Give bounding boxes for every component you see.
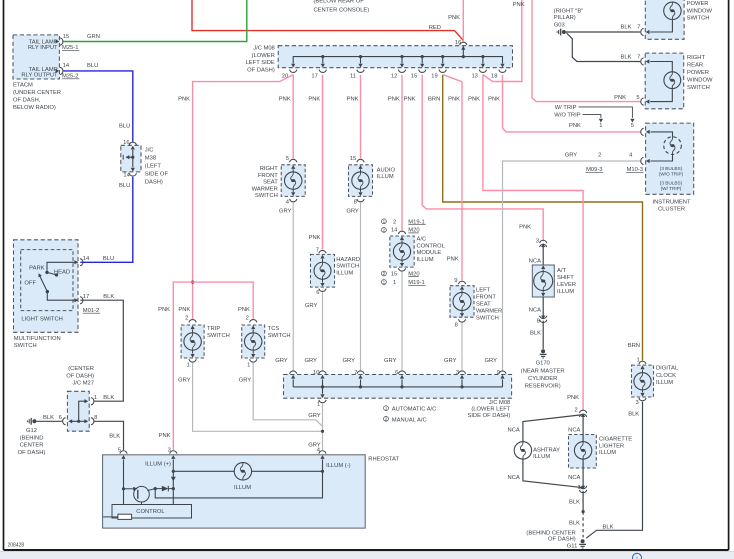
digital clock pin 3 labels	[628, 400, 639, 417]
svg-text:J/C M08: J/C M08	[253, 46, 275, 52]
svg-text:WINDOW: WINDOW	[687, 77, 713, 83]
svg-text:RLY INPUT: RLY INPUT	[28, 45, 58, 51]
svg-text:1: 1	[393, 280, 396, 286]
wire PNK pin 19 branch to left front seat warmer switch	[443, 75, 462, 281]
transistor inside rheostat control	[124, 486, 156, 504]
J/C M08 lower pin 1 exit	[317, 387, 326, 408]
ground G11	[579, 539, 586, 548]
svg-text:PNK: PNK	[447, 256, 459, 262]
svg-text:3: 3	[635, 400, 638, 406]
svg-text:16: 16	[123, 140, 129, 146]
switch TCS SWITCH	[242, 316, 291, 369]
svg-text:RIGHT: RIGHT	[260, 166, 278, 172]
svg-text:TCS: TCS	[268, 326, 280, 332]
svg-text:CONTROL: CONTROL	[136, 509, 165, 515]
resistor on control box	[103, 514, 131, 519]
svg-text:NCA: NCA	[529, 258, 541, 264]
svg-text:WINDOW: WINDOW	[687, 8, 713, 14]
svg-text:CYLINDER: CYLINDER	[528, 376, 557, 382]
svg-text:2: 2	[598, 153, 601, 159]
label (CENTER OF DASH) J/C M27	[66, 366, 94, 387]
svg-text:(LOWER: (LOWER	[252, 53, 275, 59]
J/C M08 lower pin numbers 10 7 6 3 9	[313, 370, 500, 376]
svg-text:FRONT: FRONT	[476, 294, 496, 300]
wire BLK pin 1 to junction	[569, 491, 585, 513]
svg-text:GRY: GRY	[275, 358, 288, 364]
svg-text:ILLUM: ILLUM	[377, 174, 394, 180]
light switch contact wiring	[45, 262, 78, 276]
svg-text:(RIGHT "B": (RIGHT "B"	[554, 9, 583, 15]
svg-text:G03: G03	[554, 23, 565, 29]
switch RIGHT REAR POWER WINDOW SWITCH	[641, 53, 713, 109]
svg-text:1: 1	[599, 123, 602, 129]
svg-text:BLK: BLK	[621, 24, 632, 30]
svg-text:OF DASH,: OF DASH,	[13, 97, 41, 103]
svg-text:PNK: PNK	[567, 395, 579, 401]
svg-text:REAR: REAR	[687, 62, 703, 68]
svg-text:BLK: BLK	[43, 415, 54, 421]
svg-text:15: 15	[350, 156, 356, 162]
label LIGHT SWITCH	[21, 316, 62, 322]
svg-text:NCA: NCA	[508, 428, 520, 434]
svg-text:6: 6	[59, 415, 62, 421]
J/C M08 lower top connectors	[290, 371, 507, 374]
wire PNK branch to TCS switch	[193, 282, 254, 319]
wire BLU from J/C M38 pin 14 to light switch pin 14	[80, 177, 133, 262]
ground G170 (NEAR MASTER CYLINDER RESERVOIR)	[521, 349, 565, 389]
svg-text:SIDE OF: SIDE OF	[145, 171, 169, 177]
J/C M27 pin 8	[91, 415, 97, 425]
svg-text:LEVER: LEVER	[557, 282, 576, 288]
label PNK cigarette lighter feed	[567, 395, 579, 401]
wire PNK pin 15 to a/t shift lever illum	[422, 75, 543, 241]
wire PNK pin 13 to cigarette lighter illum	[483, 75, 583, 411]
label ETACM (UNDER CENTER OF DASH, BELOW RADIO)	[13, 83, 61, 111]
svg-text:RHEOSTAT: RHEOSTAT	[368, 457, 399, 463]
svg-text:PNK: PNK	[488, 97, 500, 103]
label BLK 7 lower	[621, 54, 641, 60]
switch RIGHT FRONT SEAT WARMER SWITCH	[252, 156, 306, 206]
svg-text:GRY: GRY	[279, 209, 292, 215]
svg-text:PNK: PNK	[347, 97, 359, 103]
wire GRY left front seat warmer to lower J/C M08	[461, 323, 463, 371]
svg-text:5: 5	[286, 156, 289, 162]
svg-text:LIGHT SWITCH: LIGHT SWITCH	[21, 316, 62, 322]
svg-text:16: 16	[455, 40, 461, 46]
svg-text:BLK: BLK	[103, 294, 114, 300]
svg-text:15: 15	[63, 34, 69, 40]
svg-text:BLK: BLK	[603, 525, 614, 531]
svg-text:(LOWER LEFT: (LOWER LEFT	[471, 406, 510, 412]
svg-text:SWITCH: SWITCH	[476, 315, 499, 321]
J/C M08 upper pin numbers 20 17 11 12 15 19 13 18	[282, 73, 498, 79]
svg-text:OF DASH): OF DASH)	[18, 450, 46, 456]
wire PNK from top (below rear of center console) down to J/C M08 pin 16	[462, 0, 464, 41]
junction box J/C M27	[67, 391, 89, 431]
svg-text:GRY: GRY	[305, 303, 318, 309]
svg-text:7: 7	[354, 370, 357, 376]
wire PNK pin 12 to a/c control module illum	[401, 75, 403, 231]
wire GRN from ETACM tail lamp rly input to top edge	[64, 0, 247, 42]
svg-text:6: 6	[395, 370, 398, 376]
label (RIGHT B PILLAR) G03	[554, 9, 583, 29]
component box RHEOSTAT	[103, 455, 400, 528]
svg-text:G170: G170	[536, 361, 550, 367]
svg-text:(LEFT: (LEFT	[145, 163, 162, 169]
rheostat pin 4	[317, 447, 326, 459]
svg-text:7: 7	[637, 24, 640, 30]
label BLK rheostat pin5 feed	[109, 433, 120, 439]
svg-text:DASH): DASH)	[145, 179, 163, 185]
svg-text:PNK: PNK	[158, 307, 170, 313]
connector refs above a/c module	[382, 219, 426, 234]
svg-text:POWER: POWER	[687, 70, 709, 76]
svg-text:17: 17	[83, 294, 89, 300]
svg-text:12: 12	[391, 73, 397, 79]
svg-text:PNK: PNK	[309, 235, 321, 241]
svg-text:7: 7	[316, 247, 319, 253]
svg-text:SWITCH: SWITCH	[336, 264, 359, 270]
svg-text:ILLUM: ILLUM	[533, 454, 550, 460]
wire PNK pin 20 branch to trip switch column	[191, 75, 293, 319]
pin 15 TAIL LAMP RLY INPUT	[28, 34, 80, 51]
svg-text:A/C: A/C	[417, 237, 427, 243]
svg-text:PNK: PNK	[178, 97, 190, 103]
svg-text:PNK: PNK	[388, 97, 400, 103]
svg-text:NCA: NCA	[508, 475, 520, 481]
label PARK / HEAD / OFF	[24, 266, 70, 287]
svg-text:CENTER CONSOLE): CENTER CONSOLE)	[314, 7, 370, 13]
svg-text:BLK: BLK	[109, 433, 120, 439]
svg-text:PNK: PNK	[279, 97, 291, 103]
box CIGARETTE LIGHTER ILLUM highlight	[569, 435, 597, 469]
svg-text:LEFT SIDE: LEFT SIDE	[246, 60, 275, 66]
svg-text:GRY: GRY	[384, 358, 397, 364]
label J/C M08 (LOWER LEFT SIDE OF DASH) lower	[467, 400, 510, 419]
label BRN digital clock	[628, 343, 640, 349]
wire GRY tcs switch join	[253, 363, 322, 427]
svg-text:A/T: A/T	[557, 268, 566, 274]
wire PNK pin 18 to instrument cluster	[503, 75, 641, 132]
label MULTIFUNCTION SWITCH	[14, 336, 61, 349]
svg-text:BLK: BLK	[530, 331, 541, 337]
svg-text:5: 5	[631, 123, 634, 129]
switch LEFT FRONT SEAT WARMER SWITCH	[450, 278, 502, 328]
switch TRIP SWITCH	[181, 316, 230, 369]
svg-text:PNK: PNK	[519, 225, 531, 231]
svg-text:BRN: BRN	[428, 97, 440, 103]
svg-text:POWER: POWER	[687, 1, 709, 7]
wire BRN pin 19 to digital clock illum	[443, 75, 643, 361]
svg-text:G11: G11	[567, 544, 578, 550]
wire GRY instrument cluster to lower J/C M08 pin 9	[503, 161, 641, 370]
svg-text:SHIFT: SHIFT	[557, 275, 574, 281]
label GRY row above lower J/C M08	[275, 358, 497, 364]
rheostat pin 5 internal drop	[122, 459, 125, 504]
svg-text:GRY: GRY	[308, 413, 321, 419]
rheostat illum(+) node wiring	[171, 459, 323, 504]
cigarette lighter pin 1 connector	[577, 485, 586, 493]
note (BELOW REAR OF CENTER CONSOLE)	[314, 0, 370, 13]
label J/C M08 (LOWER LEFT SIDE OF DASH) upper	[246, 46, 275, 74]
svg-text:OF DASH): OF DASH)	[247, 67, 275, 73]
label BLU above J/C M38	[119, 124, 130, 130]
svg-text:(BEHIND CENTER: (BEHIND CENTER	[526, 530, 575, 536]
wire GRY audio illum to lower J/C M08	[346, 202, 360, 370]
svg-text:ILLUM: ILLUM	[599, 450, 616, 456]
wire BLK digital clock to G11	[586, 402, 642, 539]
svg-text:PNK: PNK	[448, 97, 460, 103]
label BLK pin1 wire	[103, 395, 114, 401]
svg-text:(W/ TRIP): (W/ TRIP)	[661, 186, 682, 191]
lamp A/T SHIFT LEVER ILLUM	[529, 239, 576, 298]
svg-text:GRY: GRY	[305, 358, 318, 364]
J/C M27 internal bus	[68, 399, 88, 423]
svg-text:GRY: GRY	[343, 358, 356, 364]
label PNK a/t shift feed	[519, 225, 531, 231]
svg-text:GRN: GRN	[87, 34, 100, 40]
component box INSTRUMENT CLUSTER	[641, 123, 694, 194]
svg-text:PNK: PNK	[238, 307, 250, 313]
junction box J/C M08 lower	[284, 375, 512, 399]
lamp HAZARD SWITCH ILLUM	[311, 247, 361, 296]
svg-text:WARMER: WARMER	[252, 186, 278, 192]
svg-text:BLK: BLK	[621, 54, 632, 60]
svg-text:CLUSTER: CLUSTER	[658, 207, 685, 213]
svg-text:PARK: PARK	[29, 266, 44, 272]
svg-text:(BELOW REAR OF: (BELOW REAR OF	[314, 0, 365, 5]
label GRY 2 4 cluster	[565, 153, 633, 159]
svg-text:18: 18	[491, 73, 497, 79]
svg-text:(UNDER CENTER: (UNDER CENTER	[13, 90, 61, 96]
svg-text:1: 1	[247, 362, 250, 368]
svg-text:RIGHT: RIGHT	[687, 55, 705, 61]
svg-text:ASHTRAY: ASHTRAY	[533, 448, 560, 454]
svg-text:BLU: BLU	[119, 124, 130, 130]
svg-text:1: 1	[317, 402, 320, 408]
wire BLK G03 to left rear power window switch pin 7	[566, 31, 641, 33]
svg-text:14: 14	[123, 173, 130, 179]
svg-text:2: 2	[246, 316, 249, 322]
svg-text:HAZARD: HAZARD	[336, 257, 360, 263]
lamp ILLUM inside rheostat	[234, 463, 252, 491]
svg-text:TRIP: TRIP	[207, 326, 220, 332]
svg-text:10: 10	[313, 370, 319, 376]
svg-text:i: i	[636, 555, 637, 559]
svg-text:2: 2	[393, 219, 396, 225]
rheostat pin 5	[118, 447, 127, 459]
svg-text:BLK: BLK	[628, 411, 639, 417]
wire NCA split to ashtray and cigarette lighter	[523, 415, 583, 488]
inner box LIGHT SWITCH	[21, 250, 73, 311]
wire BLK dashed existing splice to G11	[569, 512, 583, 538]
diagram number 208428	[8, 543, 25, 549]
junction box J/C M08 upper	[278, 46, 512, 68]
component box MULTIFUNCTION SWITCH	[14, 240, 79, 332]
label BLK near g11 join	[603, 525, 614, 531]
wire PNK pin 11 to audio illum	[360, 75, 362, 159]
svg-text:PNK: PNK	[308, 97, 320, 103]
svg-text:1: 1	[94, 395, 97, 401]
wire PNK branch from J/C M08 pin 13 up to top edge	[483, 0, 522, 82]
label GRY under trip/tcs	[178, 377, 251, 383]
wire GRY right front seat warmer to lower J/C M08	[279, 202, 293, 370]
svg-text:BLU: BLU	[87, 63, 98, 69]
pin 14 TAIL LAMP RLY OUTPUT	[21, 63, 79, 80]
svg-text:LEFT: LEFT	[476, 287, 491, 293]
J/C M08 pin 16 entry	[455, 40, 467, 56]
J/C M08 upper pin connectors	[290, 70, 507, 73]
svg-text:14: 14	[391, 228, 398, 234]
svg-text:GRY: GRY	[565, 153, 578, 159]
svg-text:SEAT: SEAT	[263, 180, 278, 186]
label ILLUM (+) and ILLUM (-)	[145, 461, 351, 469]
svg-text:MULTIFUNCTION: MULTIFUNCTION	[14, 336, 61, 342]
switch POWER WINDOW SWITCH (top, cut off)	[641, 0, 713, 39]
svg-text:ILLUM: ILLUM	[656, 380, 673, 386]
svg-text:17: 17	[311, 73, 317, 79]
svg-text:PNK: PNK	[159, 433, 171, 439]
svg-text:2: 2	[574, 408, 577, 414]
svg-text:DIGITAL: DIGITAL	[656, 366, 679, 372]
lamp ASHTRAY ILLUM	[514, 442, 560, 461]
ground G12 (BEHIND CENTER OF DASH)	[18, 415, 62, 456]
svg-text:BLU: BLU	[103, 256, 114, 262]
svg-text:SWITCH: SWITCH	[268, 333, 291, 339]
svg-text:GRY: GRY	[346, 209, 359, 215]
svg-text:GRY: GRY	[178, 377, 191, 383]
label PNK above rheostat pin 3	[159, 433, 171, 439]
svg-text:PILLAR): PILLAR)	[554, 15, 576, 21]
svg-text:FRONT: FRONT	[258, 173, 278, 179]
svg-text:14: 14	[63, 63, 70, 69]
ground G03	[557, 29, 566, 36]
svg-text:W/O TRIP: W/O TRIP	[554, 113, 580, 119]
svg-text:PNK: PNK	[614, 95, 626, 101]
svg-text:CONTROL: CONTROL	[417, 243, 446, 249]
svg-text:NCA: NCA	[529, 308, 541, 314]
svg-text:OF DASH): OF DASH)	[66, 373, 94, 379]
svg-text:M38: M38	[145, 155, 156, 161]
wire GRY hazard to lower J/C M08	[305, 292, 323, 370]
label PNK on console wire	[448, 15, 460, 21]
svg-text:19: 19	[431, 73, 437, 79]
svg-text:PNK: PNK	[569, 123, 581, 129]
svg-text:AUTOMATIC A/C: AUTOMATIC A/C	[392, 407, 437, 413]
label PNK column labels above trip/tcs	[158, 307, 250, 313]
svg-text:SWITCH: SWITCH	[14, 343, 37, 349]
svg-text:MANUAL A/C: MANUAL A/C	[392, 417, 427, 423]
svg-text:OF DASH): OF DASH)	[548, 537, 576, 543]
label PNK above hazard	[309, 235, 321, 241]
connector refs below a/c module	[382, 271, 426, 286]
w/trip w/o trip pin pointers	[554, 105, 634, 123]
label PNK above left front seat warmer	[447, 256, 459, 262]
svg-text:RLY OUTPUT: RLY OUTPUT	[21, 73, 58, 79]
label GRN	[87, 34, 100, 40]
svg-text:3: 3	[536, 239, 539, 245]
label PNK 5 right rear switch	[614, 95, 640, 101]
svg-text:OFF: OFF	[24, 281, 36, 287]
svg-text:BLK: BLK	[569, 499, 580, 505]
svg-text:RED: RED	[429, 25, 441, 31]
svg-text:NCA: NCA	[568, 428, 580, 434]
lamp DIGITAL CLOCK ILLUM	[632, 357, 679, 400]
svg-text:J/C M27: J/C M27	[72, 381, 94, 387]
legend automatic/manual a/c	[384, 406, 437, 424]
svg-text:15: 15	[411, 73, 417, 79]
J/C M38 pin 14 connector	[123, 168, 136, 179]
svg-text:NCA: NCA	[568, 475, 580, 481]
svg-text:8: 8	[94, 415, 97, 421]
svg-text:9: 9	[454, 278, 457, 284]
svg-text:14: 14	[83, 256, 90, 262]
svg-text:CIGARETTE: CIGARETTE	[599, 437, 632, 443]
wire BLK J/C M27 pin 8 to rheostat pin 5	[94, 421, 123, 450]
lamp AUDIO ILLUM	[349, 156, 396, 206]
junction box J/C M38 (LEFT SIDE OF DASH)	[121, 140, 169, 186]
svg-text:(3 BULBS): (3 BULBS)	[660, 166, 683, 171]
label (BEHIND CENTER OF DASH) G11	[526, 530, 577, 549]
J/C M08 upper internal bus	[291, 55, 505, 68]
wire colour labels row under J/C M08	[178, 97, 500, 103]
svg-text:15: 15	[391, 271, 397, 277]
svg-text:6: 6	[316, 290, 319, 296]
svg-text:RESERVOIR): RESERVOIR)	[525, 383, 561, 389]
wire PNK from top edge to right rear power window switch pin 5	[532, 0, 640, 102]
svg-text:SWITCH: SWITCH	[255, 193, 278, 199]
wire RED from top left to J/C M08 pin 16	[192, 0, 463, 41]
svg-text:(W/O TRIP): (W/O TRIP)	[659, 171, 684, 176]
cigarette lighter pin 2 connector	[574, 408, 586, 417]
svg-text:INSTRUMENT: INSTRUMENT	[653, 199, 691, 205]
wire PNK branch to rheostat pin 3	[173, 282, 192, 450]
svg-text:BLU: BLU	[119, 183, 130, 189]
svg-text:2: 2	[185, 316, 188, 322]
svg-text:ILLUM: ILLUM	[336, 270, 353, 276]
CONTROL box inside rheostat	[112, 505, 192, 519]
svg-text:PNK: PNK	[513, 2, 525, 8]
svg-text:(CENTER: (CENTER	[68, 366, 94, 372]
label INSTRUMENT CLUSTER	[653, 199, 691, 212]
svg-text:ILLUM: ILLUM	[417, 257, 434, 263]
svg-text:W/ TRIP: W/ TRIP	[555, 105, 577, 111]
light switch pin 17	[74, 294, 114, 314]
connector box ETACM	[13, 35, 59, 79]
svg-text:PNK: PNK	[468, 97, 480, 103]
label PNK 1 5 cluster	[569, 123, 634, 129]
svg-text:SWITCH: SWITCH	[687, 85, 710, 91]
svg-text:1: 1	[187, 362, 190, 368]
wire BLU from ETACM pin 14 to J/C M38 pin 16	[64, 71, 133, 142]
svg-text:J/C: J/C	[145, 147, 154, 153]
lamp A/C CONTROL MODULE ILLUM	[390, 231, 446, 271]
label RED	[429, 25, 441, 31]
bottom toolbar strip	[0, 552, 734, 559]
svg-text:ILLUM (+): ILLUM (+)	[145, 461, 171, 467]
J/C M38 internal bus	[123, 150, 134, 167]
svg-text:ILLUM (-): ILLUM (-)	[326, 463, 351, 469]
svg-text:BRN: BRN	[628, 343, 640, 349]
svg-text:9: 9	[497, 370, 500, 376]
svg-text:G12: G12	[26, 428, 37, 434]
J/C M27 pin 1	[91, 395, 97, 405]
connector refs M09-3 M10-3	[586, 167, 644, 173]
svg-text:HEAD: HEAD	[54, 269, 70, 275]
svg-text:8: 8	[455, 322, 458, 328]
a/t shift pin 8 connector	[529, 297, 547, 349]
svg-text:PNK: PNK	[178, 307, 190, 313]
